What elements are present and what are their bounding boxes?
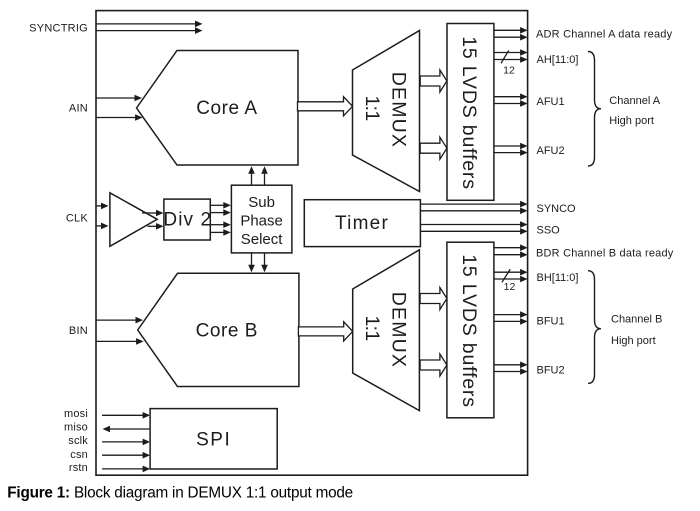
wire SYNCTRIG upper <box>96 23 197 25</box>
svg-text:sclk: sclk <box>68 435 88 447</box>
svg-text:Core A: Core A <box>196 98 257 119</box>
wire Div2 to SubPhase 1 <box>210 204 225 206</box>
block Core A (ADC core) <box>137 51 299 166</box>
chip boundary box <box>96 11 528 476</box>
wire rstn <box>102 468 144 470</box>
wire BIN lower <box>96 340 138 342</box>
wire mosi <box>102 414 144 416</box>
wire AH bus upper <box>494 52 522 54</box>
wire AIN lower <box>96 117 137 119</box>
svg-text:High port: High port <box>611 335 656 347</box>
wire SubPhase to CoreA left (arrow up) <box>251 172 253 185</box>
svg-text:SYNCTRIG: SYNCTRIG <box>29 23 88 35</box>
wire AH bus lower <box>494 59 522 61</box>
svg-text:DEMUX: DEMUX <box>387 292 409 368</box>
wire AFU1 lower <box>494 103 522 105</box>
block Timer <box>304 200 420 247</box>
wire sclk <box>102 441 144 443</box>
wire BFU2 upper <box>494 364 522 366</box>
wire BH bus lower <box>494 278 522 280</box>
svg-text:Phase: Phase <box>240 213 283 230</box>
svg-text:miso: miso <box>64 421 88 433</box>
bus arrow DEMUX B to LVDS upper <box>420 288 447 310</box>
wire CLK lower input <box>96 225 103 227</box>
bus arrow DEMUX A to LVDS upper <box>420 70 447 92</box>
svg-text:AH[11:0]: AH[11:0] <box>537 54 579 66</box>
svg-text:Timer: Timer <box>335 213 389 234</box>
wire miso (arrow out) <box>109 428 151 430</box>
svg-text:1:1: 1:1 <box>361 316 383 341</box>
svg-text:SSO: SSO <box>537 224 561 236</box>
block DEMUX 1:1 A trapezoid <box>353 31 420 192</box>
svg-text:ADR Channel A data ready: ADR Channel A data ready <box>536 29 673 41</box>
svg-text:Figure 1: Block diagram in DEM: Figure 1: Block diagram in DEMUX 1:1 out… <box>7 484 353 501</box>
svg-text:SPI: SPI <box>196 430 231 451</box>
block 15 LVDS buffers B <box>447 242 494 418</box>
wire BDR upper <box>494 247 522 249</box>
svg-text:BDR Channel B data ready: BDR Channel B data ready <box>536 248 674 260</box>
block SPI <box>150 409 277 469</box>
brace Channel B group <box>588 271 601 384</box>
svg-text:BIN: BIN <box>69 325 88 337</box>
svg-text:BFU2: BFU2 <box>537 365 565 377</box>
svg-text:1:1: 1:1 <box>361 96 383 121</box>
wire AFU1 upper <box>494 96 522 98</box>
svg-text:12: 12 <box>504 281 516 293</box>
svg-text:Core B: Core B <box>196 320 258 341</box>
bus arrow DEMUX B to LVDS lower <box>420 354 447 376</box>
wire AFU2 upper <box>494 145 522 147</box>
svg-text:DEMUX: DEMUX <box>387 72 409 148</box>
svg-text:Select: Select <box>241 231 284 248</box>
bus arrow Core B to DEMUX B <box>298 322 352 341</box>
wire SubPhase to CoreB left (arrow down) <box>251 253 253 266</box>
wire SYNCO lower <box>420 210 521 212</box>
wire BFU1 lower <box>494 320 522 322</box>
wire Div2 to SubPhase 4 <box>210 231 225 233</box>
block DEMUX 1:1 B trapezoid <box>353 250 420 411</box>
wire BFU1 upper <box>494 314 522 316</box>
wire SSO lower <box>420 230 521 232</box>
brace Channel A group <box>588 52 601 167</box>
clock buffer amplifier triangle <box>110 193 157 247</box>
bus width slash B <box>502 269 510 282</box>
svg-text:15 LVDS buffers: 15 LVDS buffers <box>458 36 480 190</box>
svg-text:BFU1: BFU1 <box>537 315 565 327</box>
svg-text:SYNCO: SYNCO <box>537 203 577 215</box>
svg-text:CLK: CLK <box>66 212 89 224</box>
svg-text:AFU1: AFU1 <box>537 96 565 108</box>
wire SSO upper <box>420 224 521 226</box>
wire SYNCTRIG lower <box>96 30 197 32</box>
wire AFU2 lower <box>494 152 522 154</box>
wire AIN upper <box>96 97 136 99</box>
wire SubPhase to CoreA right (arrow up) <box>264 172 266 185</box>
wire BFU2 lower <box>494 371 522 373</box>
svg-text:15 LVDS buffers: 15 LVDS buffers <box>458 254 480 408</box>
svg-text:AFU2: AFU2 <box>537 145 565 157</box>
svg-text:Channel A: Channel A <box>609 95 660 107</box>
bus width slash A <box>501 50 509 63</box>
wire clock buffer to Div2 upper <box>142 212 158 214</box>
wire clock buffer to Div2 lower <box>148 225 158 227</box>
wire BDR lower <box>494 254 522 256</box>
svg-text:Channel B: Channel B <box>611 313 662 325</box>
svg-text:Div 2: Div 2 <box>163 210 212 231</box>
block Core B (ADC core) <box>138 273 299 386</box>
wire Div2 to SubPhase 2 <box>210 212 225 214</box>
svg-text:BH[11:0]: BH[11:0] <box>537 272 579 284</box>
svg-text:Sub: Sub <box>248 194 275 211</box>
svg-text:12: 12 <box>503 65 515 77</box>
block Div 2 clock divider <box>164 199 210 240</box>
block Sub Phase Select <box>231 185 292 253</box>
bus arrow Core A to DEMUX A <box>298 97 353 116</box>
wire BIN upper <box>96 319 137 321</box>
wire CLK upper input <box>96 205 103 207</box>
svg-text:csn: csn <box>70 449 88 461</box>
wire BH bus upper <box>494 271 522 273</box>
wire SYNCO upper <box>420 203 521 205</box>
svg-text:mosi: mosi <box>64 408 88 420</box>
wire csn <box>102 454 144 456</box>
svg-text:AIN: AIN <box>69 102 88 114</box>
bus arrow DEMUX A to LVDS lower <box>420 137 447 159</box>
svg-text:rstn: rstn <box>69 462 88 474</box>
wire Div2 to SubPhase 3 <box>210 224 225 226</box>
block 15 LVDS buffers A <box>447 24 494 201</box>
wire SubPhase to CoreB right (arrow down) <box>264 253 266 266</box>
svg-text:High port: High port <box>609 115 654 127</box>
wire ADR lower <box>494 36 522 38</box>
wire ADR upper <box>494 29 522 31</box>
